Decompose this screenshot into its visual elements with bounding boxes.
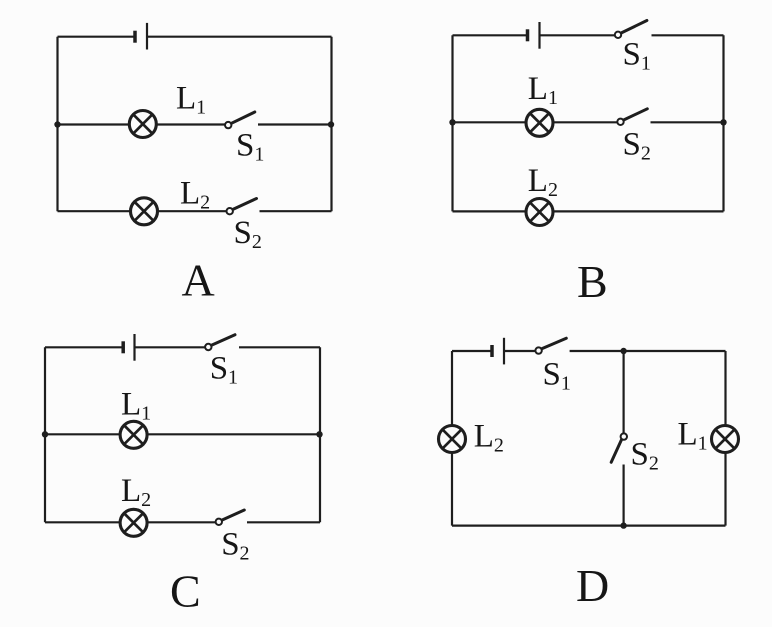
wire: A middle branch, switch S1 to right node [258,123,332,125]
node: B middle-left junction [449,119,455,125]
wire: D top edge, battery to switch S1 [504,350,536,352]
battery cell (circuit C) [123,334,134,361]
svg-text:L1: L1 [678,417,708,455]
wire: C bottom edge, switch S2 to right corner [247,521,320,523]
wire: A top edge right of battery [147,36,332,38]
wire: B top edge, battery to switch S1 [540,34,615,36]
wire: A right side [330,37,332,212]
wire: B middle branch, switch S2 to right node [651,121,724,123]
node: C middle-left junction [42,431,48,437]
wire: B bottom edge [453,210,724,212]
svg-text:L1: L1 [528,71,558,109]
lamp L2 (circuit C) [120,509,147,536]
battery cell (circuit A) [135,23,147,50]
svg-text:S2: S2 [221,527,249,565]
node: A middle-left junction [54,121,60,127]
wire: C bottom edge, left corner to switch S2 [45,521,216,523]
svg-text:C: C [170,566,201,617]
wire: D top edge, switch S1 to right corner [570,350,726,352]
wire: D right side above lamp L1 [724,351,726,426]
wire: C right side [319,347,321,522]
svg-text:S2: S2 [623,126,651,164]
wire: C top edge, battery to switch S1 [135,346,206,348]
wire: D bottom edge [452,524,726,526]
wire: C top edge left of battery [45,346,123,348]
lamp L1 (circuit A) [129,111,156,138]
wire: A bottom edge, left corner to switch S2 [58,210,227,212]
lamp L1 (circuit C) [120,421,147,448]
wire: B middle branch, left node to switch S2 [453,121,618,123]
switch S1 (circuit A) [225,112,255,128]
wire: D middle vertical branch, switch S2 to bottom [622,465,624,526]
svg-text:B: B [577,256,608,307]
wire: C top edge, switch S1 to right corner [239,346,320,348]
lamp L2 (circuit A) [131,198,158,225]
svg-text:A: A [182,255,215,306]
switch S2 (circuit D) [611,433,627,462]
wire: D left side above lamp L2 [451,351,453,426]
svg-text:S1: S1 [236,128,264,166]
svg-text:L2: L2 [180,176,210,214]
lamp L1 (circuit B) [526,109,553,136]
wire: D left side below lamp L2 [451,452,453,526]
svg-text:L2: L2 [121,473,151,511]
wire: C left side [44,347,46,522]
svg-text:L2: L2 [474,419,504,457]
wire: A bottom edge, switch S2 to right corner [260,210,332,212]
switch S1 (circuit C) [205,335,235,350]
node: B middle-right junction [720,119,726,125]
svg-text:S2: S2 [234,215,262,253]
node: D bottom junction [620,522,626,528]
svg-text:S1: S1 [623,36,651,74]
svg-text:L2: L2 [528,163,558,201]
wire: B left side [451,35,453,211]
switch S2 (circuit B) [617,109,647,125]
node: A middle-right junction [328,121,334,127]
wire: D right side below lamp L1 [724,452,726,526]
wire: B top edge, switch S1 to right corner [652,34,724,36]
wire: B right side [722,35,724,211]
wire: A middle branch, left node to switch S1 [58,123,226,125]
lamp L1 (circuit D) [712,426,739,453]
svg-text:S1: S1 [210,350,238,388]
svg-text:L1: L1 [121,386,151,424]
svg-text:L1: L1 [176,81,206,119]
switch S2 (circuit A) [227,199,257,215]
wire: A top edge left of battery [58,36,136,38]
lamp L2 (circuit B) [526,199,553,226]
svg-text:S2: S2 [631,436,659,474]
wire: D top edge left of battery [452,350,492,352]
node: D top junction [620,348,626,354]
battery cell (circuit D) [492,338,504,365]
wire: B top edge left of battery [453,34,528,36]
wire: A left side [56,37,58,212]
wire: C middle branch [45,433,320,435]
svg-text:D: D [576,560,609,611]
node: C middle-right junction [316,431,322,437]
switch S2 (circuit C) [216,510,245,525]
battery cell (circuit B) [528,22,540,49]
switch S1 (circuit B) [615,21,647,39]
switch S1 (circuit D) [535,338,566,354]
wire: D middle vertical branch, top to switch S2 [622,351,624,434]
svg-text:S1: S1 [543,356,571,394]
lamp L2 (circuit D) [439,426,466,453]
